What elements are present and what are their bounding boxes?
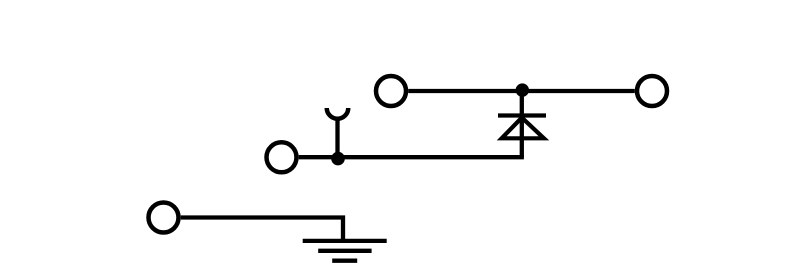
wire (vertical, junction down through diode to middle row) [520, 91, 524, 157]
wire (top row, junction to right terminal) [522, 89, 635, 93]
terminal circle P2 (top-right connection point) [637, 76, 667, 106]
wire (bottom row horizontal with corner down to ground) [181, 218, 343, 241]
ground bar 3 (bottom, narrowest) [332, 259, 357, 263]
test socket symbol (half-circle contact) [327, 108, 349, 119]
terminal circle P3 (middle-left connection point) [267, 142, 297, 172]
junction node (middle row) [331, 152, 345, 166]
ground bar 1 (top, widest) [303, 239, 387, 243]
junction node (top row) [516, 83, 529, 96]
wire (middle row horizontal) [299, 155, 524, 159]
wire (top row, left segment to junction) [408, 89, 522, 93]
diode D1 cathode bar [498, 113, 546, 117]
diode D1 triangle (anode, pointing up) [502, 118, 544, 139]
ground bar 2 (middle) [318, 249, 371, 253]
terminal circle P1 (top-left connection point) [376, 76, 406, 106]
wire (stub up from middle junction to test socket) [335, 119, 339, 158]
terminal circle P4 (bottom-left connection point) [149, 203, 179, 233]
